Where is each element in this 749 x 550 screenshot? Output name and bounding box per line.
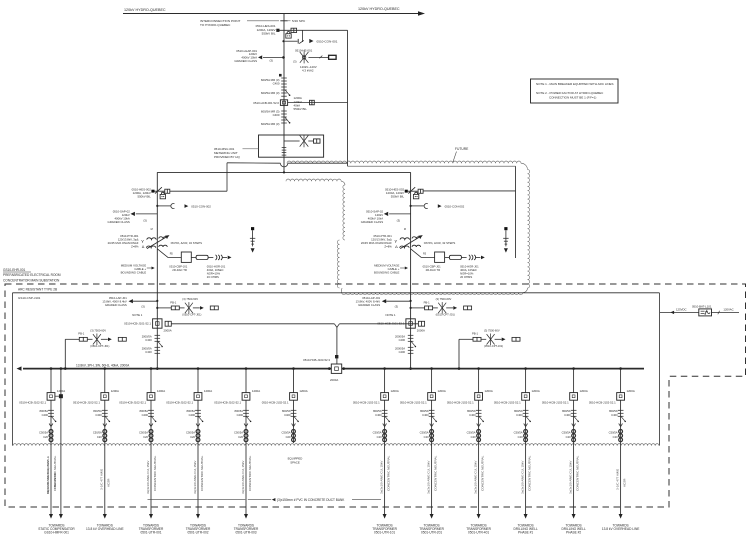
cloud boundary FUTURE right edge: [528, 170, 530, 289]
svg-text:TO HYDRO-QUEBEC: TO HYDRO-QUEBEC: [200, 23, 231, 27]
metering unit box 0510-MSU-001: [259, 135, 324, 157]
bus 13.8kV main: [23, 368, 331, 370]
svg-text:NOTE 1 - MAIN BREAKER EQUIPP: NOTE 1 - MAIN BREAKER EQUIPPED WITH ARC …: [536, 82, 614, 86]
svg-text:0501-UTR-001: 0501-UTR-001: [140, 530, 161, 534]
feeder 9 cable: [473, 443, 484, 519]
svg-text:GRADED CLASS: GRADED CLASS: [234, 59, 257, 63]
cable ticks group 2 on main feed: [281, 110, 287, 112]
svg-text:PREFABRICATED ELECTRICAL ROOM: PREFABRICATED ELECTRICAL ROOM: [3, 273, 61, 277]
wire drop to bus tie breaker: [336, 327, 338, 364]
svg-text:0510-HCB-J103-52.3: 0510-HCB-J103-52.3: [303, 358, 330, 362]
svg-text:GS10-HMFR-001: GS10-HMFR-001: [44, 530, 69, 534]
svg-text:0510-HCB-001 52.0: 0510-HCB-001 52.0: [253, 101, 279, 105]
svg-text:5/16 SPC: 5/16 SPC: [292, 19, 306, 23]
PT branch PB-3 on left bus: [65, 328, 126, 348]
feeder 3 cable: [146, 443, 157, 519]
wire bypass vertical x=347.5: [347, 30, 349, 166]
PT branch PB-4 on right bus: [459, 328, 520, 348]
svg-text:13.8 kV OVERHEAD LINE: 13.8 kV OVERHEAD LINE: [86, 527, 124, 531]
feeder 3 breaker 0510-HCB-J103: [119, 367, 165, 443]
svg-text:550kV BIL: 550kV BIL: [294, 107, 308, 111]
wire right subcircuit switch to ground riser: [423, 190, 515, 192]
svg-text:0501-UTR-201: 0501-UTR-201: [421, 530, 442, 534]
feeder 12 breaker 0510-HCB-J112: [589, 367, 635, 443]
svg-text:C400: C400: [273, 113, 280, 117]
wire left subcircuit bypass vertical: [226, 163, 228, 191]
svg-text:600/5A MR (3): 600/5A MR (3): [261, 91, 280, 95]
ground switch 0510-CON-001: [282, 40, 284, 42]
solid switchgear box GS10-CSP-J101: [13, 292, 660, 294]
current transformer mark group 2: [285, 117, 290, 122]
feeder 8 cable: [426, 443, 437, 519]
svg-text:GS10-CSP-J101: GS10-CSP-J101: [18, 296, 41, 300]
svg-text:550kV BIL: 550kV BIL: [262, 31, 276, 35]
feeder 11 breaker 0510-HCB-J111: [542, 367, 588, 443]
feeder 1 cable: [46, 443, 57, 519]
feeder 5 cable: [241, 443, 252, 519]
feeder 7 breaker 0510-HCB-J107: [353, 367, 399, 443]
svg-text:600/5A MR (3): 600/5A MR (3): [261, 122, 280, 126]
wire 120VAC to battery: [712, 311, 740, 313]
fuse disconnect on feeder 1 second conductor: [55, 395, 59, 397]
terminal box on breaker bypass: [310, 100, 315, 105]
node interconnection point tick: [280, 20, 287, 22]
surge arrester 0510-HLAP-001: [263, 56, 284, 58]
cloud boundary FUTURE left edge: [337, 240, 339, 288]
disconnect switch 0510-HES-001: [276, 29, 279, 32]
svg-text:PROVIDED BY HQ: PROVIDED BY HQ: [214, 155, 240, 159]
wire main vertical from 120kV line: [283, 14, 285, 136]
wire main vertical through metering box: [283, 135, 285, 172]
wire 125VDC from battery: [660, 311, 699, 313]
arrowhead bus left end: [17, 366, 22, 370]
svg-text:13.8kV, 3PH, 3W, 60Hz, 40kA, 2: 13.8kV, 3PH, 3W, 60Hz, 40kA, 2000A: [76, 363, 130, 367]
svg-text:120kV HYDRO-QUEBEC: 120kV HYDRO-QUEBEC: [124, 8, 166, 12]
feeder 5 breaker 0510-HCB-J105: [214, 367, 260, 443]
feeder 10 breaker 0510-HCB-J110: [494, 367, 540, 443]
feeder 4 breaker 0510-HCB-J104: [166, 367, 212, 443]
battery charger 0510-BAT-L101: [699, 309, 712, 316]
svg-text:MEDIUM VOLTAGE CABLE: MEDIUM VOLTAGE CABLE: [46, 456, 50, 494]
svg-text:0501-UTR-003: 0501-UTR-003: [235, 530, 256, 534]
svg-text:(3): (3): [293, 59, 296, 63]
feeder 8 breaker 0510-HCB-J108: [400, 367, 446, 443]
wire breaker bypass to future tie: [288, 102, 348, 104]
svg-text:0501-UTR-002: 0501-UTR-002: [187, 530, 208, 534]
node junction below VT: [279, 74, 282, 77]
cloud boundary FUTURE bottom-left corner: [340, 288, 343, 293]
svg-text:0510-BAT-L101: 0510-BAT-L101: [692, 304, 712, 308]
bus tie breaker 0510-HCB-J103: [331, 364, 341, 373]
cloud boundary FUTURE bottom edge: [342, 293, 523, 295]
svg-text:13.8 kV OVERHEAD LINE: 13.8 kV OVERHEAD LINE: [602, 527, 640, 531]
label 5/16 SPC: [288, 20, 291, 22]
feeder 12 overhead cable: [615, 443, 626, 519]
feeder 10 cable: [520, 443, 531, 519]
cloud boundary FUTURE bottom-right corner: [523, 288, 528, 293]
note box NOTE 1 / NOTE 2: [531, 79, 619, 103]
fuse disconnect on tie drop: [335, 355, 338, 358]
wire leader from FUTURE to cloud: [453, 152, 457, 164]
svg-text:0510-CON-001: 0510-CON-001: [317, 39, 338, 43]
svg-text:120kV HYDRO-QUEBEC: 120kV HYDRO-QUEBEC: [358, 7, 400, 11]
wire bus PT riser left: [64, 339, 66, 368]
feeder 6 breaker 0510-HCB-J106: [262, 367, 308, 443]
cable ticks group 1 on main feed: [281, 77, 287, 79]
arrowhead on 120kV line: [418, 11, 425, 16]
svg-text:(3)x150mm # PVC IN CONCRETE DU: (3)x150mm # PVC IN CONCRETE DUCT BANK: [277, 498, 345, 502]
svg-text:2000A: 2000A: [330, 378, 338, 382]
feeder 9 breaker 0510-HCB-J109: [447, 367, 493, 443]
dashed enclosure GS10-EHR-001 outline: [5, 284, 746, 507]
svg-text:CONNECTION MUST BE 1 (P.F=1): CONNECTION MUST BE 1 (P.F=1): [549, 95, 596, 99]
feeder 1 breaker 0510-HCB-J101: [19, 367, 65, 443]
cloud boundary FUTURE top edge: [287, 161, 521, 163]
svg-text:GS10-EHR-001: GS10-EHR-001: [3, 268, 26, 272]
padlock on 0510-HES-001: [286, 34, 291, 38]
cloud boundary FUTURE top-right corner: [521, 163, 528, 169]
duct bank callout: [248, 499, 271, 501]
feeder 7 cable: [379, 443, 390, 519]
wire 120kV incoming line: [123, 13, 418, 15]
transformer subcircuit 0510-PTR-001 left: [102, 172, 255, 370]
svg-text:PHASE #2: PHASE #2: [566, 530, 581, 534]
wire leader to interconnection point: [247, 20, 279, 22]
current transformer mark group 1: [285, 90, 290, 95]
cloud cable exit boundary bottom of switchgear: [13, 444, 659, 446]
wire left subcircuit switch to bypass: [170, 190, 227, 192]
cloud boundary FUTURE inner top edge: [286, 179, 341, 181]
terminal box in metering unit: [314, 139, 321, 143]
wire transfer line between subcircuit breakers: [171, 323, 334, 325]
stab joint on transfer line: [334, 324, 339, 328]
svg-text:CONCENTRATOR MAIN SUBSTATION: CONCENTRATOR MAIN SUBSTATION: [3, 278, 60, 282]
svg-text:120VAC: 120VAC: [723, 308, 733, 312]
feeder 2 breaker 0510-HCB-J102: [73, 367, 119, 443]
svg-text:15kV TECK: 15kV TECK: [53, 473, 57, 489]
duct bank span line feeders 3-5: [148, 499, 246, 501]
feeder 2 overhead cable: [100, 443, 111, 519]
arrowhead feeder 1 second conductor: [59, 514, 63, 519]
metering transformer symbol: [284, 140, 300, 142]
svg-text:SPACE: SPACE: [290, 460, 300, 464]
svg-text:FUTURE: FUTURE: [455, 147, 469, 151]
svg-text:0501-UTR-401: 0501-UTR-401: [468, 530, 489, 534]
terminal box of 0510-HE-001: [329, 55, 337, 59]
PT branch PB-2 of right subcircuit: [411, 297, 472, 317]
circuit breaker 0510-HCB-001: [280, 100, 287, 106]
wire feeder 1 second conductor: [60, 367, 63, 370]
wire future bus inside cloud: [348, 165, 516, 167]
cloud boundary FUTURE inner corner: [341, 181, 345, 185]
svg-text:(3): (3): [269, 59, 273, 63]
wire bus PT riser right: [458, 339, 460, 368]
feeder 4 cable: [193, 443, 204, 519]
svg-text:ARC RESISTANT TYPE 2B: ARC RESISTANT TYPE 2B: [18, 288, 57, 292]
svg-text:C400: C400: [273, 81, 280, 85]
svg-text:4.3 kVA2: 4.3 kVA2: [302, 69, 314, 73]
wire future-tie horizontal y=163: [227, 162, 280, 164]
feeder 11 cable: [568, 443, 579, 519]
svg-text:125VDC: 125VDC: [676, 308, 687, 312]
wire right ground riser vertical: [515, 166, 517, 258]
svg-text:PHASE #1: PHASE #1: [518, 530, 533, 534]
svg-text:0501-UTR-101: 0501-UTR-101: [374, 530, 395, 534]
cable ticks inside metering box: [282, 147, 287, 149]
PT branch PB-1 of left subcircuit: [157, 297, 218, 317]
wire transformer feeder bus y=172.4: [157, 171, 410, 173]
transformer subcircuit 0510-PTR-002 right: [356, 172, 509, 370]
